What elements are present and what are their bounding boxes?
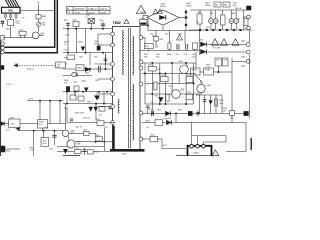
- svg-text:R82: R82: [215, 5, 218, 7]
- svg-text:D812: D812: [6, 151, 10, 153]
- svg-text:C814: C814: [192, 54, 196, 56]
- svg-text:C810: C810: [94, 64, 98, 66]
- svg-text:C806: C806: [156, 54, 160, 56]
- svg-text:R813: R813: [187, 75, 191, 77]
- svg-text:(C807): (C807): [186, 6, 192, 8]
- svg-text:C809: C809: [79, 57, 83, 59]
- svg-text:D814: D814: [163, 145, 167, 147]
- svg-text:J802: J802: [241, 41, 245, 43]
- svg-text:C812: C812: [150, 34, 154, 36]
- svg-text:C801: C801: [6, 29, 10, 31]
- svg-text:R808: R808: [42, 16, 46, 18]
- svg-text:(D806): (D806): [205, 5, 211, 7]
- svg-text:C820: C820: [219, 100, 223, 102]
- svg-text:R815: R815: [155, 96, 159, 98]
- svg-text:IC801: IC801: [187, 92, 191, 94]
- svg-text:R817: R817: [178, 110, 182, 112]
- svg-text:R803: R803: [165, 34, 169, 36]
- svg-text:R82: R82: [105, 127, 108, 129]
- svg-text:L803: L803: [197, 12, 201, 14]
- svg-text:OFF AC: OFF AC: [74, 11, 81, 14]
- svg-text:Q801: Q801: [71, 131, 75, 133]
- svg-text:C840: C840: [10, 117, 14, 119]
- svg-text:M801: M801: [232, 13, 237, 15]
- svg-text:L805: L805: [11, 123, 15, 125]
- svg-text:F801 2A: F801 2A: [235, 7, 242, 10]
- svg-text:Q804: Q804: [207, 85, 212, 87]
- svg-text:0.1: 0.1: [86, 17, 89, 19]
- svg-text:+12V ←: +12V ←: [6, 84, 14, 86]
- svg-text:D811: D811: [168, 118, 172, 120]
- svg-text:R810: R810: [84, 130, 88, 132]
- svg-text:C825: C825: [224, 60, 228, 62]
- svg-text:HOT GND: HOT GND: [213, 47, 222, 49]
- svg-text:D817: D817: [216, 60, 220, 62]
- svg-text:CN801: CN801: [193, 152, 199, 154]
- svg-text:100U: 100U: [94, 44, 99, 46]
- svg-text:T801: T801: [210, 13, 214, 15]
- svg-text:C816: C816: [64, 108, 68, 110]
- svg-text:R821: R821: [151, 134, 155, 136]
- svg-text:D808: D808: [87, 102, 91, 104]
- svg-text:Q802: Q802: [82, 81, 87, 83]
- svg-text:C81: C81: [176, 54, 179, 56]
- svg-text:S801: S801: [8, 11, 14, 13]
- svg-text:J804: J804: [241, 66, 245, 68]
- svg-text:D815: D815: [199, 40, 203, 42]
- svg-text:C821: C821: [230, 118, 234, 120]
- svg-text:Q805: Q805: [180, 89, 184, 91]
- svg-text:(D805): (D805): [160, 6, 166, 8]
- svg-text:220V 50: 220V 50: [100, 9, 107, 11]
- svg-text:C805: C805: [99, 20, 103, 22]
- svg-text:R80: R80: [64, 20, 67, 22]
- svg-text:+12V: +12V: [5, 129, 10, 131]
- svg-text:+12V: +12V: [28, 99, 34, 101]
- svg-text:C817: C817: [157, 69, 161, 71]
- svg-text:→TV: →TV: [35, 2, 40, 4]
- svg-text:+12V: +12V: [14, 64, 19, 66]
- svg-text:R812: R812: [96, 119, 100, 121]
- svg-text:ON/OFF SW: ON/OFF SW: [74, 9, 84, 11]
- svg-text:C808: C808: [178, 34, 182, 36]
- svg-text:D810: D810: [157, 110, 161, 112]
- svg-text:110VAC 60: 110VAC 60: [88, 8, 97, 11]
- svg-text:C818: C818: [169, 86, 173, 88]
- svg-text:220VAC: 220VAC: [100, 11, 107, 14]
- svg-text:R811: R811: [149, 65, 153, 67]
- svg-text:1/2W: 1/2W: [64, 50, 68, 52]
- svg-text:R809: R809: [145, 46, 149, 48]
- svg-text:C824: C824: [95, 152, 99, 154]
- svg-text:C814: C814: [95, 80, 99, 82]
- svg-text:R819: R819: [96, 135, 100, 137]
- svg-text:R807 D807: R807 D807: [75, 113, 84, 115]
- svg-text:D813: D813: [75, 148, 79, 150]
- svg-text:Q806: Q806: [77, 142, 81, 144]
- svg-text:2.2: 2.2: [64, 44, 67, 46]
- svg-text:R804: R804: [144, 54, 148, 56]
- svg-text:8D-9: 8D-9: [39, 124, 43, 126]
- svg-text:T3.15: T3.15: [16, 23, 20, 25]
- svg-text:Q803: Q803: [179, 61, 183, 63]
- svg-text:R812 1K: R812 1K: [76, 127, 83, 129]
- svg-text:!: !: [141, 10, 142, 14]
- svg-text:T802: T802: [113, 21, 121, 25]
- svg-text:C823: C823: [49, 149, 53, 151]
- svg-text:J803: J803: [241, 57, 245, 59]
- svg-text:2200: 2200: [184, 54, 188, 56]
- svg-text:R814: R814: [161, 75, 165, 77]
- svg-text:RL801: RL801: [192, 70, 197, 72]
- svg-text:C82: C82: [151, 102, 154, 104]
- svg-text:←+25V: ←+25V: [63, 34, 70, 36]
- svg-text:R805: R805: [85, 73, 89, 75]
- svg-text:L801: L801: [20, 29, 24, 31]
- svg-text:C811: C811: [155, 44, 159, 46]
- svg-text:801: 801: [57, 66, 60, 68]
- svg-text:R824 1K: R824 1K: [27, 68, 34, 70]
- svg-text:R820: R820: [146, 120, 150, 122]
- svg-text:R83: R83: [237, 19, 240, 21]
- svg-text:C840 10U: C840 10U: [83, 118, 91, 120]
- svg-text:RELAY: RELAY: [205, 69, 212, 72]
- svg-text:R804: R804: [78, 68, 82, 70]
- svg-text:R802: R802: [64, 58, 68, 60]
- svg-text:SW: SW: [67, 12, 70, 14]
- svg-text:R83: R83: [224, 5, 227, 7]
- svg-text:L802: L802: [73, 20, 77, 22]
- svg-text:D804: D804: [78, 42, 83, 44]
- svg-text:TH80: TH80: [159, 39, 163, 41]
- svg-text:C819: C819: [148, 109, 152, 111]
- svg-text:L80: L80: [22, 18, 25, 20]
- svg-text:C813: C813: [73, 82, 77, 84]
